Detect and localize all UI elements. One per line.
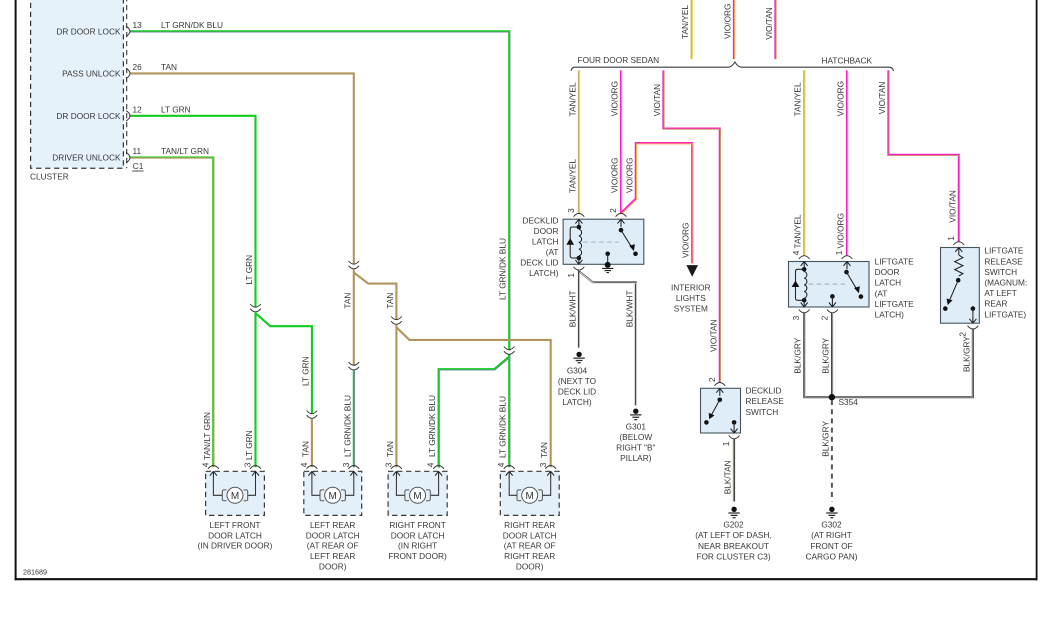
wire TAN/YEL to decklid door latch pin 3 — [578, 70, 581, 213]
svg-text:VIO/ORG: VIO/ORG — [681, 223, 691, 259]
svg-text:LIFTGATE: LIFTGATE — [875, 257, 914, 267]
wire BLK/GRY (dashed) from S354 to G302 — [831, 400, 833, 502]
svg-text:G202: G202 — [723, 520, 744, 530]
svg-text:LIFTGATE): LIFTGATE) — [984, 309, 1026, 319]
svg-text:RELEASE: RELEASE — [984, 256, 1023, 266]
decklid release pin 2 connector arc — [714, 383, 725, 386]
decklid release pin 1 connector arc — [729, 436, 740, 439]
wire LT GRN to left front door latch pin 3 — [254, 312, 256, 467]
wire BLK/WHT from decklid latch pin 1 to G304 — [578, 270, 581, 348]
svg-text:G304: G304 — [567, 365, 588, 375]
right front door latch box — [388, 471, 447, 515]
svg-text:TAN/YEL: TAN/YEL — [567, 82, 577, 116]
decklid release pin 1 arrow (down) — [731, 425, 738, 433]
svg-text:PILLAR): PILLAR) — [620, 453, 652, 463]
svg-text:4: 4 — [201, 462, 211, 467]
svg-text:C1: C1 — [133, 161, 144, 171]
svg-text:VIO/ORG: VIO/ORG — [722, 4, 732, 40]
svg-text:LEFT REAR: LEFT REAR — [310, 520, 356, 530]
svg-text:(IN DRIVER DOOR): (IN DRIVER DOOR) — [198, 541, 273, 551]
svg-text:FRONT DOOR): FRONT DOOR) — [388, 551, 447, 561]
left rear door latch box — [304, 471, 362, 515]
svg-text:DECK LID: DECK LID — [558, 386, 596, 396]
decklid latch pin 3 arrow — [575, 219, 582, 227]
left front door latch box — [206, 471, 265, 515]
wire TAN to right front door latch pin 3 — [395, 324, 397, 467]
decklid release switch open contact dot — [704, 420, 709, 425]
wire LT GRN/DK BLU to left rear door latch pin 3 — [353, 370, 356, 467]
svg-text:DOOR LATCH: DOOR LATCH — [391, 530, 445, 540]
liftgate release switch fixed contact dot — [971, 306, 976, 311]
right front latch motor wiring — [396, 479, 438, 495]
svg-text:DRIVER UNLOCK: DRIVER UNLOCK — [52, 153, 121, 163]
svg-text:SYSTEM: SYSTEM — [674, 304, 708, 314]
decklid latch switch pivot dot — [619, 228, 624, 233]
svg-text:LIGHTS: LIGHTS — [676, 293, 706, 303]
svg-text:(AT: (AT — [546, 247, 559, 257]
svg-text:LATCH): LATCH) — [562, 397, 592, 407]
right rear latch motor wiring — [509, 479, 551, 495]
svg-text:(AT RIGHT: (AT RIGHT — [811, 530, 852, 540]
svg-text:G301: G301 — [626, 422, 647, 432]
inline connector on LT GRN/DK BLU wire — [504, 347, 515, 355]
svg-text:VIO/ORG: VIO/ORG — [610, 81, 620, 117]
svg-text:LT GRN: LT GRN — [300, 356, 310, 386]
svg-text:LATCH: LATCH — [875, 278, 902, 288]
inline connector on LT GRN wire — [250, 304, 261, 312]
svg-text:DOOR: DOOR — [875, 267, 900, 277]
svg-text:VIO/TAN: VIO/TAN — [652, 84, 662, 117]
inline connector on TAN wire — [349, 261, 360, 269]
svg-text:3: 3 — [341, 462, 351, 467]
svg-text:DOOR): DOOR) — [516, 561, 544, 571]
svg-text:4: 4 — [299, 462, 309, 467]
decklid latch switch blade — [621, 230, 632, 248]
svg-text:(NEXT TO: (NEXT TO — [558, 376, 597, 386]
cluster pin 13 connector arc — [126, 26, 130, 36]
svg-text:SWITCH: SWITCH — [984, 267, 1017, 277]
wire LT GRN from cluster pin 12 — [130, 116, 256, 307]
svg-text:G302: G302 — [821, 520, 842, 530]
liftgate release switch open contact dot — [943, 306, 948, 311]
svg-text:DOOR: DOOR — [534, 226, 559, 236]
svg-text:TAN: TAN — [161, 62, 177, 72]
svg-text:TAN: TAN — [300, 441, 310, 457]
liftgate release pin 2 arrow (down) — [969, 316, 976, 324]
svg-text:TAN: TAN — [385, 441, 395, 457]
svg-text:LT GRN/DK BLU: LT GRN/DK BLU — [498, 238, 508, 300]
svg-text:RELEASE: RELEASE — [746, 396, 785, 406]
liftgate latch pin 2 connector arc — [827, 310, 838, 313]
frame right border — [1036, 0, 1038, 580]
decklid release switch fixed contact dot — [732, 420, 737, 425]
wire VIO/ORG to liftgate door latch pin 1 — [846, 70, 849, 255]
cluster pin 26 connector arc — [126, 68, 130, 78]
svg-text:LATCH: LATCH — [532, 236, 559, 246]
splice S354 — [829, 394, 835, 400]
cluster pin 11 connector arc — [126, 152, 130, 162]
decklid latch pin 1 connector arc — [574, 267, 585, 270]
svg-text:(AT REAR OF: (AT REAR OF — [307, 541, 359, 551]
liftgate latch solenoid — [792, 267, 807, 303]
svg-text:26: 26 — [133, 62, 143, 72]
wire stub TAN/YEL at top — [691, 0, 694, 59]
svg-text:DECK LID: DECK LID — [520, 257, 558, 267]
liftgate release switch blade — [949, 280, 958, 302]
svg-text:LT GRN: LT GRN — [161, 104, 191, 114]
decklid latch switch contact dot — [633, 252, 638, 257]
svg-text:VIO/ORG: VIO/ORG — [610, 158, 620, 194]
svg-text:VIO/ORG: VIO/ORG — [624, 158, 634, 194]
svg-text:CARGO PAN): CARGO PAN) — [806, 551, 858, 561]
svg-text:(AT REAR OF: (AT REAR OF — [504, 541, 556, 551]
svg-text:1: 1 — [566, 273, 576, 278]
motor M (right front latch) — [405, 487, 430, 503]
decklid latch solenoid — [566, 225, 581, 261]
liftgate latch pin 2 arrow (down) — [829, 299, 836, 307]
svg-text:FOR CLUSTER C3): FOR CLUSTER C3) — [696, 551, 770, 561]
svg-text:VIO/TAN: VIO/TAN — [877, 82, 887, 115]
wire VIO/ORG to decklid door latch pin 2 — [620, 70, 623, 213]
svg-text:BLK/GRY: BLK/GRY — [820, 421, 830, 457]
ground G304 — [573, 352, 584, 363]
left front latch pin arrows — [210, 471, 217, 479]
right front latch pin 3 connector arc — [391, 466, 402, 469]
svg-text:13: 13 — [133, 20, 143, 30]
svg-text:TAN/LT GRN: TAN/LT GRN — [202, 412, 212, 460]
svg-text:LEFT FRONT: LEFT FRONT — [209, 520, 260, 530]
left rear latch pin arrows — [308, 471, 315, 479]
wire stub VIO/TAN at top — [774, 0, 777, 59]
svg-text:(IN RIGHT: (IN RIGHT — [398, 541, 437, 551]
decklid latch dashed link line — [583, 241, 619, 243]
svg-text:TAN/LT GRN: TAN/LT GRN — [161, 146, 209, 156]
svg-text:12: 12 — [133, 104, 143, 114]
frame left border — [15, 0, 17, 580]
svg-text:AT LEFT: AT LEFT — [984, 288, 1016, 298]
wire branch TAN to right rear door latch pin 3 — [396, 327, 550, 467]
cluster connector strip dashed line — [126, 0, 128, 168]
svg-text:LIFTGATE: LIFTGATE — [875, 299, 914, 309]
svg-text:FOUR DOOR SEDAN: FOUR DOOR SEDAN — [578, 55, 660, 65]
svg-text:HATCHBACK: HATCHBACK — [822, 56, 873, 66]
wire branch LT GRN/DK BLU to right front door latch pin 4 — [439, 357, 510, 468]
svg-text:BLK/GRY: BLK/GRY — [821, 337, 831, 373]
left rear latch pin 4 connector arc — [307, 466, 318, 469]
svg-text:REAR: REAR — [984, 299, 1007, 309]
svg-text:NEAR BREAKOUT: NEAR BREAKOUT — [698, 541, 769, 551]
decklid release pin 2 arrow — [716, 388, 723, 396]
wire branch VIO/ORG to interior lights system — [621, 143, 693, 264]
svg-text:VIO/TAN: VIO/TAN — [764, 7, 774, 40]
wire VIO/TAN to decklid release switch pin 2 — [663, 70, 720, 383]
right rear latch pin 4 connector arc — [504, 466, 515, 469]
right front latch pin arrows — [393, 471, 400, 479]
liftgate latch pin 1 connector arc — [842, 256, 853, 259]
motor M (left front latch) — [222, 487, 247, 503]
svg-text:(AT LEFT OF DASH,: (AT LEFT OF DASH, — [695, 530, 772, 540]
inline connector on TAN branch wire — [391, 317, 402, 325]
wire TAN continues below connector — [353, 269, 355, 366]
wire BLK/GRY from liftgate latch pin 2 — [831, 313, 834, 396]
decklid latch internal case ground — [605, 252, 610, 257]
svg-text:BLK/TAN: BLK/TAN — [723, 460, 733, 494]
inline connector on LT GRN branch (to TAN) — [307, 411, 318, 419]
svg-text:(AT: (AT — [875, 288, 888, 298]
liftgate latch pin 3 connector arc — [799, 310, 810, 313]
wire stub VIO/ORG at top — [733, 0, 736, 59]
svg-text:DECKLID: DECKLID — [523, 215, 559, 225]
decklid latch pin 2 arrow — [618, 219, 625, 227]
ground G301 — [630, 409, 641, 420]
svg-text:BLK/WHT: BLK/WHT — [624, 290, 634, 327]
liftgate release pin 1 connector arc — [953, 242, 964, 245]
svg-text:TAN/YEL: TAN/YEL — [680, 5, 690, 39]
left rear latch motor wiring — [312, 479, 354, 495]
wire VIO/TAN to liftgate release switch pin 1 — [888, 70, 959, 242]
svg-text:3: 3 — [566, 208, 576, 213]
svg-text:2: 2 — [819, 315, 829, 320]
svg-text:SWITCH: SWITCH — [746, 407, 779, 417]
decklid latch pin 2 connector arc — [616, 213, 627, 216]
liftgate release resistor — [955, 255, 963, 276]
right rear latch pin arrows — [506, 471, 513, 479]
liftgate release switch box — [941, 248, 980, 324]
cluster pin 12 connector arc — [126, 111, 130, 121]
motor M (right rear latch) — [517, 487, 542, 503]
svg-text:3: 3 — [791, 315, 801, 320]
svg-text:TAN: TAN — [385, 293, 395, 309]
wire BLK/GRY from liftgate release switch pin 2 — [833, 329, 973, 398]
svg-text:FRONT OF: FRONT OF — [810, 541, 852, 551]
svg-text:LATCH): LATCH) — [529, 268, 559, 278]
frame bottom border — [15, 578, 1038, 580]
svg-text:2: 2 — [707, 377, 717, 382]
decklid release switch blade — [711, 400, 720, 416]
liftgate latch switch pivot dot — [844, 270, 849, 275]
liftgate latch pin 4 arrow — [801, 262, 808, 270]
svg-text:CLUSTER: CLUSTER — [30, 172, 69, 182]
svg-text:RIGHT FRONT: RIGHT FRONT — [389, 520, 446, 530]
svg-text:11: 11 — [133, 146, 142, 156]
svg-text:VIO/ORG: VIO/ORG — [836, 81, 846, 117]
svg-text:VIO/ORG: VIO/ORG — [836, 213, 846, 249]
svg-text:1: 1 — [946, 236, 956, 241]
right rear door latch box — [500, 471, 559, 515]
decklid release switch box — [701, 388, 741, 433]
svg-text:3: 3 — [384, 462, 394, 467]
svg-text:DOOR LATCH: DOOR LATCH — [306, 530, 360, 540]
wire BLK/TAN to G202 — [732, 439, 735, 502]
ground G202 — [728, 507, 739, 518]
decklid release switch pivot dot — [718, 398, 723, 403]
svg-text:DR DOOR LOCK: DR DOOR LOCK — [56, 26, 121, 36]
svg-text:TAN/YEL: TAN/YEL — [793, 214, 803, 248]
svg-text:TAN: TAN — [539, 442, 549, 458]
svg-text:LT GRN/DK BLU: LT GRN/DK BLU — [427, 395, 437, 457]
liftgate latch switch contact dot — [859, 294, 864, 299]
liftgate latch dashed link line — [809, 283, 846, 285]
svg-text:4: 4 — [426, 462, 436, 467]
liftgate latch pin 2 dot — [830, 294, 835, 299]
right rear latch pin 3 connector arc — [545, 466, 556, 469]
motor M (left rear latch) — [320, 487, 345, 503]
svg-text:LEFT REAR: LEFT REAR — [310, 551, 356, 561]
liftgate latch solenoid bottom arrow — [801, 299, 808, 307]
svg-text:DECKLID: DECKLID — [746, 386, 782, 396]
arrow to interior lights system — [686, 265, 698, 277]
svg-text:S354: S354 — [839, 397, 859, 407]
bracket line FOUR DOOR SEDAN / HATCHBACK — [571, 62, 894, 71]
wire branch BLK/WHT to G301 — [579, 271, 636, 406]
svg-text:LT GRN: LT GRN — [244, 430, 254, 460]
svg-text:3: 3 — [538, 462, 548, 467]
wire BLK/GRY from liftgate latch pin 3 — [804, 313, 831, 398]
svg-text:VIO/TAN: VIO/TAN — [708, 319, 718, 352]
liftgate door latch box — [789, 262, 870, 308]
svg-text:LT GRN: LT GRN — [244, 255, 254, 285]
inline connector on TAN wire (to LT GRN/DK BLU) — [349, 362, 360, 370]
wire TAN from cluster pin 26 — [130, 73, 354, 264]
svg-text:DOOR LATCH: DOOR LATCH — [503, 530, 557, 540]
decklid door latch box — [563, 219, 644, 264]
wire TAN/LT GRN from cluster pin 11 — [129, 157, 214, 467]
svg-text:(MAGNUM:: (MAGNUM: — [984, 278, 1027, 288]
liftgate latch switch blade — [847, 272, 858, 290]
svg-text:4: 4 — [496, 462, 506, 467]
left front latch pin 3 connector arc — [250, 466, 261, 469]
wire TAN to left rear door latch pin 4 — [311, 418, 313, 467]
svg-text:BLK/GRY: BLK/GRY — [793, 337, 803, 373]
svg-text:DOOR): DOOR) — [319, 561, 347, 571]
left front latch motor wiring — [213, 479, 255, 495]
wire LT GRN/DK BLU from cluster pin 13 — [130, 31, 510, 467]
svg-text:LIFTGATE: LIFTGATE — [984, 246, 1023, 256]
svg-text:DOOR LATCH: DOOR LATCH — [208, 530, 262, 540]
liftgate release pin 1 arrow — [955, 248, 962, 256]
svg-text:RIGHT "B": RIGHT "B" — [616, 443, 655, 453]
svg-text:TAN: TAN — [342, 293, 352, 309]
svg-text:TAN/YEL: TAN/YEL — [567, 159, 577, 193]
svg-text:LT GRN/DK BLU: LT GRN/DK BLU — [498, 396, 508, 458]
left front latch pin 4 connector arc — [208, 466, 219, 469]
left rear latch pin 3 connector arc — [348, 466, 359, 469]
svg-text:4: 4 — [791, 250, 801, 255]
svg-text:(BELOW: (BELOW — [619, 432, 652, 442]
liftgate latch pin 1 arrow — [844, 262, 851, 270]
ground G302 — [826, 507, 837, 518]
svg-text:LATCH): LATCH) — [875, 310, 905, 320]
svg-text:LT GRN/DK BLU: LT GRN/DK BLU — [161, 20, 223, 30]
wire branch LT GRN to the right — [256, 313, 312, 414]
svg-text:2: 2 — [608, 208, 618, 213]
right front latch pin 4 connector arc — [433, 466, 444, 469]
liftgate release switch pivot dot — [956, 278, 961, 283]
cluster box — [31, 0, 124, 168]
decklid latch solenoid bottom arrow — [575, 257, 582, 265]
svg-text:LT GRN/DK BLU: LT GRN/DK BLU — [342, 395, 352, 457]
wire TAN/YEL to liftgate door latch pin 4 — [803, 70, 806, 255]
svg-text:281689: 281689 — [23, 568, 47, 577]
svg-text:PASS UNLOCK: PASS UNLOCK — [62, 69, 121, 79]
decklid latch pin 3 connector arc — [574, 213, 585, 216]
svg-text:DR DOOR LOCK: DR DOOR LOCK — [56, 111, 121, 121]
svg-text:VIO/TAN: VIO/TAN — [947, 190, 957, 223]
svg-text:1: 1 — [834, 250, 844, 255]
svg-text:RIGHT REAR: RIGHT REAR — [504, 520, 555, 530]
svg-text:3: 3 — [243, 462, 253, 467]
svg-text:2: 2 — [958, 332, 968, 337]
liftgate release pin 2 connector arc — [968, 326, 979, 329]
svg-text:1: 1 — [721, 441, 731, 446]
svg-text:BLK/WHT: BLK/WHT — [567, 290, 577, 327]
svg-text:RIGHT REAR: RIGHT REAR — [504, 551, 555, 561]
svg-text:BLK/GRY: BLK/GRY — [961, 336, 971, 372]
wire branch TAN to the right — [354, 273, 397, 320]
liftgate latch pin 4 connector arc — [799, 256, 810, 259]
svg-text:INTERIOR: INTERIOR — [671, 282, 711, 292]
svg-text:TAN/YEL: TAN/YEL — [793, 82, 803, 116]
